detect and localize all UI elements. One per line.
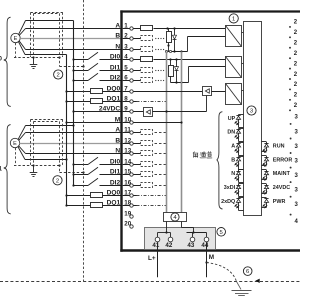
terminal 13 contact circle xyxy=(130,152,133,155)
svg-text:DQ1: DQ1 xyxy=(107,199,121,206)
terminal 4 contact circle xyxy=(130,58,133,61)
terminal 19 contact circle xyxy=(130,215,133,218)
field M wire to terminal 10 xyxy=(67,122,121,124)
arrow marker on rail xyxy=(255,279,259,283)
svg-text:DI2: DI2 xyxy=(110,179,121,186)
wire row M to M bus xyxy=(123,121,183,123)
earth ground symbol xyxy=(232,282,252,296)
repeated (dash-dot) output row 18 xyxy=(123,205,166,207)
svg-text:A: A xyxy=(115,22,120,29)
power converter box xyxy=(164,213,187,222)
svg-text:24VDC: 24VDC xyxy=(273,185,290,191)
terminal 11 label xyxy=(115,126,131,133)
DI2' switch contact xyxy=(72,178,120,186)
svg-text:DI0: DI0 xyxy=(110,53,121,60)
terminal 2 contact circle xyxy=(130,37,133,40)
terminal 14 label xyxy=(110,158,132,165)
DI0 switch contact xyxy=(72,52,120,60)
cable shield dashed box inner (channel 0) xyxy=(34,14,60,58)
cable shield dashed box outer (channel 0) xyxy=(31,13,63,58)
svg-text:DI1: DI1 xyxy=(110,64,121,71)
clamp zener diode (DI group) xyxy=(175,60,179,83)
terminal 41 xyxy=(152,237,159,249)
ground symbol (channel 1) xyxy=(30,166,38,177)
svg-text:DI0: DI0 xyxy=(110,158,121,165)
shield drop to lower shield run (channel 0) xyxy=(60,14,85,68)
field 24VDC wire to terminal 9 xyxy=(74,111,121,113)
repeated (dashed) input resistor row 13 xyxy=(123,151,166,156)
wire E' aux-bottom joining return line xyxy=(18,147,68,161)
terminal 9 contact circle xyxy=(130,110,133,113)
shield drain dashed from E' xyxy=(15,148,17,166)
terminal 19 label xyxy=(124,210,131,217)
svg-text:DI2: DI2 xyxy=(110,74,121,81)
callout 3 xyxy=(247,106,256,115)
input resistor row 1 xyxy=(123,26,153,31)
repeated (dashed) input resistor row 5 xyxy=(123,68,165,73)
module top border xyxy=(120,10,300,12)
internal L+ bus (gray) xyxy=(166,52,168,213)
clamp common rail (DI group) xyxy=(171,81,189,83)
terminal block (gray) xyxy=(145,228,216,250)
clamp resistor chain R (DI group) xyxy=(169,60,174,83)
terminal 6 contact circle xyxy=(130,79,133,82)
terminal 42 xyxy=(165,237,172,249)
energy meter E (channel 0) xyxy=(11,33,20,42)
svg-text:DQ0: DQ0 xyxy=(107,85,121,92)
svg-text:2: 2 xyxy=(57,73,60,79)
terminal 17 contact circle xyxy=(130,194,133,197)
svg-text:L+: L+ xyxy=(148,255,156,262)
terminal 2 label xyxy=(115,32,128,39)
svg-text:2xDQ: 2xDQ xyxy=(221,199,235,205)
status LED MAINT xyxy=(262,170,291,181)
svg-text:E: E xyxy=(14,36,18,42)
svg-text:DI1: DI1 xyxy=(110,168,121,175)
input resistor row 4 xyxy=(123,57,153,62)
rail riser to isolation box 2 input xyxy=(189,67,226,83)
wire E aux-bottom to return line xyxy=(18,42,66,55)
svg-text:1: 1 xyxy=(232,17,235,23)
DI0' switch contact xyxy=(72,157,120,165)
clamp resistor chain R (A group) xyxy=(167,29,172,52)
svg-text:M: M xyxy=(115,116,121,123)
svg-text:DQ1: DQ1 xyxy=(107,95,121,102)
svg-text:RUN: RUN xyxy=(273,144,285,150)
wire E' aux-top to supply line xyxy=(18,126,74,140)
rail riser to isolation box 1 input xyxy=(188,37,226,52)
field return line to M xyxy=(65,55,67,206)
terminal 18 label xyxy=(107,199,132,206)
field DI supply line xyxy=(72,21,74,186)
repeated (dashed) input resistor row 16 xyxy=(123,183,166,188)
callout 2 (channel 1 shielding) xyxy=(53,176,62,185)
terminal 14 contact circle xyxy=(130,163,133,166)
repeated (dashed) input resistor row 6 xyxy=(123,78,165,83)
terminal 5 contact circle xyxy=(130,69,133,72)
svg-text:A: A xyxy=(115,126,120,133)
DQ0' load resistor xyxy=(65,193,120,198)
repeated (dashed) input resistor row 3 xyxy=(123,47,165,52)
channel 1 group brace xyxy=(0,125,11,214)
DI1 switch contact xyxy=(72,63,120,71)
svg-text:A: A xyxy=(231,144,235,150)
terminal 7 label xyxy=(107,85,129,92)
terminal 10 label xyxy=(115,116,132,123)
wire row DQ0 to output driver xyxy=(123,91,203,93)
status LED A (per channel) xyxy=(231,143,243,156)
svg-text:B: B xyxy=(231,157,235,163)
terminal 15 label xyxy=(110,168,132,175)
terminal 11 contact circle xyxy=(130,131,133,134)
terminal 8 label xyxy=(107,95,129,102)
cable shield dashed box inner (channel 1) xyxy=(34,122,60,166)
svg-text:44: 44 xyxy=(201,242,208,249)
equipotential dashed rail xyxy=(0,281,300,283)
clamp common rail (A group) xyxy=(165,50,187,52)
terminal 6 label xyxy=(110,74,128,81)
svg-text:M: M xyxy=(209,254,214,261)
wire E to terminal A xyxy=(19,29,120,36)
terminal 15 contact circle xyxy=(130,173,133,176)
cropped legend column (3,4) xyxy=(290,115,299,225)
terminal 7 contact circle xyxy=(130,90,133,93)
isolation barrier box 2 (DI) xyxy=(226,57,244,78)
terminal 5 label xyxy=(110,64,128,71)
terminal 12 contact circle xyxy=(130,142,133,145)
repeated (dash-dot) output row 17 xyxy=(123,195,166,197)
wire row 24VDC to supply driver xyxy=(123,111,144,113)
per-channel brace xyxy=(217,112,223,209)
DQ1 load resistor xyxy=(65,99,120,104)
output driver U-DQ xyxy=(203,87,212,96)
callout 6 xyxy=(243,267,252,276)
terminal 17 label xyxy=(107,189,132,196)
status LED DN (per channel) xyxy=(227,129,243,142)
repeated (dash-dot) output row 8 xyxy=(123,101,166,103)
cropped legend column (2) xyxy=(289,20,298,112)
repeated (dashed) input resistor row 11 xyxy=(123,130,166,135)
svg-text:DN: DN xyxy=(227,130,235,136)
terminal 12 label xyxy=(115,137,131,144)
module left border xyxy=(120,10,122,251)
wire E to terminal N xyxy=(19,41,121,50)
module bottom border xyxy=(120,249,300,252)
repeated (dashed) input resistor row 2 xyxy=(123,36,165,41)
supply driver U-24V xyxy=(144,108,153,117)
energy meter E' (channel 1) xyxy=(10,138,19,147)
svg-text:N: N xyxy=(231,171,235,177)
terminal 3 label xyxy=(115,43,128,50)
shield bus dashed (channel 1) xyxy=(14,164,61,166)
svg-text:3xDI: 3xDI xyxy=(224,185,236,191)
terminal 13 label xyxy=(115,147,131,154)
status LED RUN xyxy=(262,142,285,154)
terminal 1 contact circle xyxy=(130,27,133,30)
wiring to terminals 41/42 xyxy=(158,222,171,238)
terminal 9 label xyxy=(99,105,128,112)
status LED N (per channel) xyxy=(231,170,243,183)
shield drain dashed from E xyxy=(15,43,17,58)
shield bus dashed (channel 0) xyxy=(14,56,61,58)
repeated (dashed) input resistor row 14 xyxy=(123,162,166,167)
svg-text:N: N xyxy=(115,147,120,154)
internal electronics block xyxy=(244,22,262,216)
DQ0 load resistor xyxy=(65,89,120,94)
terminal 4 label xyxy=(110,53,128,60)
wire row A to isolation box 1 xyxy=(154,27,226,29)
terminal 44 xyxy=(201,237,208,249)
terminal 8 contact circle xyxy=(130,100,133,103)
svg-text:24VDC: 24VDC xyxy=(99,105,120,112)
shield drop to lower shield run (channel 1) xyxy=(60,122,85,174)
terminal 3 contact circle xyxy=(130,48,133,51)
DQ1' load resistor xyxy=(65,203,120,208)
internal M bus (gray) xyxy=(181,52,183,213)
status LED UP (per channel) xyxy=(228,115,244,128)
repeated (dashed) input resistor row 12 xyxy=(123,141,166,146)
terminal 18 contact circle xyxy=(130,204,133,207)
svg-text:E: E xyxy=(13,141,17,147)
terminal 16 contact circle xyxy=(130,184,133,187)
svg-text:43: 43 xyxy=(187,242,194,249)
callout 1 xyxy=(229,14,238,23)
svg-text:ERROR: ERROR xyxy=(273,157,293,163)
terminal 20 label xyxy=(124,220,131,227)
channel 0 group brace xyxy=(0,17,11,106)
callout 4 xyxy=(171,213,179,221)
svg-text:B: B xyxy=(115,137,120,144)
status LED PWR xyxy=(262,198,286,209)
svg-text:N: N xyxy=(115,43,120,50)
ground symbol (channel 0) xyxy=(30,58,38,69)
wire E aux-top to supply line xyxy=(19,21,74,35)
svg-text:B: B xyxy=(115,32,120,39)
callout 5 xyxy=(217,228,226,237)
status LED 3xDI (per channel) xyxy=(224,184,244,197)
svg-text:42: 42 xyxy=(165,242,172,249)
terminal 10 contact circle xyxy=(130,121,133,124)
status LED 2xDQ (per channel) xyxy=(221,198,243,211)
svg-text:41: 41 xyxy=(152,242,159,249)
DI1' switch contact xyxy=(72,167,120,175)
terminal 20 contact circle xyxy=(130,225,133,228)
wire driver to isolation box 3 xyxy=(212,91,226,93)
cable shield dashed box outer (channel 1) xyxy=(31,120,63,166)
wire E' to terminal B (gray) xyxy=(20,143,121,145)
status LED 24VDC xyxy=(262,184,291,195)
wire row DI0 to isolation box 2 xyxy=(154,58,226,60)
DI2 switch contact xyxy=(72,73,120,81)
status LED B (per channel) xyxy=(231,157,243,170)
svg-text:DQ0: DQ0 xyxy=(107,189,121,196)
isolation barrier box 3 (DQ) xyxy=(226,84,244,105)
svg-text:UP: UP xyxy=(228,116,236,122)
L+ lead xyxy=(148,242,158,277)
wiring to terminals 43/44 xyxy=(182,222,207,238)
terminal 16 label xyxy=(110,179,132,186)
wire E' to terminal A xyxy=(19,133,121,141)
svg-text:MAINT: MAINT xyxy=(273,171,291,177)
terminal 1 label xyxy=(115,22,128,29)
wire E' to terminal N xyxy=(19,146,121,154)
repeated (dashed) input resistor row 15 xyxy=(123,172,166,177)
svg-text:2: 2 xyxy=(56,178,59,184)
terminal 43 xyxy=(187,237,194,249)
M lead xyxy=(205,242,214,277)
per-channel label 每通道 xyxy=(193,151,212,158)
functional earth dashed link xyxy=(207,263,237,282)
isolation barrier box 1 (measuring) xyxy=(226,26,244,47)
clamp zener diode (A group) xyxy=(173,29,177,52)
long shield dashed vertical xyxy=(83,0,85,282)
callout 2 (channel 0 shielding) xyxy=(54,70,63,79)
wire supply driver to buses and DQ driver xyxy=(153,96,207,113)
wire E to terminal B (gray) xyxy=(20,38,121,40)
status LED ERROR xyxy=(262,156,293,167)
svg-text:PWR: PWR xyxy=(273,199,286,205)
